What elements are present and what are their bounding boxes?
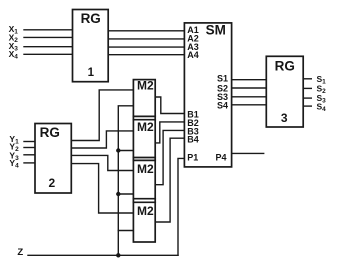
wire Z bus vertical riser — [118, 106, 133, 256]
wire Y4 (RG2 to M2-4 upper input) — [71, 164, 133, 213]
wire A3 (RG1 to SM) — [108, 46, 184, 48]
junction dot Z bus to M2-3 — [116, 192, 120, 196]
wire Z input line — [28, 254, 178, 256]
register RG1 box — [73, 10, 109, 82]
XOR M2-4 top edge — [133, 201, 155, 203]
svg-text:S4: S4 — [217, 100, 228, 110]
wire S2 output stub — [303, 87, 311, 89]
svg-text:2: 2 — [48, 176, 55, 190]
wire S1 output stub — [303, 78, 311, 80]
wire Z tap to M2-3 lower input — [118, 193, 133, 195]
wire Z tap to M2-4 lower input — [118, 230, 133, 232]
XOR M2-3 bottom edge — [133, 198, 155, 200]
wire A1 (RG1 to SM) — [108, 30, 184, 32]
wire S2 (SM to RG3) — [232, 87, 267, 89]
svg-text:M2: M2 — [137, 79, 154, 93]
svg-text:P1: P1 — [187, 152, 198, 162]
wire A2 (RG1 to SM) — [108, 38, 184, 40]
svg-text:Z: Z — [17, 247, 23, 258]
register RG2 box — [35, 124, 71, 194]
XOR column M2 outer box — [133, 80, 155, 242]
adder SM box — [184, 23, 231, 167]
wire X2 input — [24, 36, 73, 38]
XOR M2-3 top edge — [133, 159, 155, 161]
wire P4 output — [232, 152, 264, 154]
wire A4 (RG1 to SM) — [108, 54, 184, 56]
svg-text:3: 3 — [281, 111, 288, 125]
wire X1 input — [24, 29, 73, 31]
wire B4 (M2-4 output to SM) — [155, 138, 184, 222]
wire Y3 stub — [24, 154, 35, 156]
svg-text:B4: B4 — [187, 135, 199, 145]
wire Y1 stub — [24, 141, 35, 143]
XOR M2-2 top edge — [133, 119, 155, 121]
wire B3 (M2-3 output to SM) — [155, 130, 184, 184]
wire Y2 stub — [24, 147, 35, 149]
wire S4 output stub — [303, 105, 311, 107]
svg-text:RG: RG — [81, 11, 101, 26]
junction dot Z bus to M2-2 — [116, 148, 120, 152]
svg-text:P4: P4 — [216, 152, 227, 162]
wire X4 input — [24, 53, 73, 55]
wire Y2 (RG2 to M2-2 upper input) — [71, 131, 133, 148]
svg-text:1: 1 — [88, 67, 95, 79]
svg-text:RG: RG — [40, 125, 60, 140]
wire B2 (M2-2 output to SM) — [155, 122, 184, 143]
svg-text:S1: S1 — [217, 74, 228, 84]
svg-text:RG: RG — [275, 59, 295, 74]
wire S4 (SM to RG3) — [232, 104, 267, 106]
wire X3 input — [24, 46, 73, 48]
wire S1 (SM to RG3) — [232, 79, 267, 81]
svg-text:M2: M2 — [137, 120, 154, 134]
wire Z tap to M2-2 lower input — [118, 150, 133, 152]
wire Y4 stub — [24, 162, 35, 164]
wire Y3 (RG2 to M2-3 upper input) — [71, 155, 133, 170]
XOR M2-2 bottom edge — [133, 157, 155, 159]
wire S3 output stub — [303, 97, 311, 99]
junction dot Z bus at Z line — [116, 253, 120, 257]
svg-text:A4: A4 — [187, 50, 199, 60]
wire Y1 (RG2 to M2-1 upper input) — [71, 90, 133, 141]
svg-text:M2: M2 — [137, 162, 154, 176]
svg-text:SM: SM — [206, 23, 226, 38]
wire S3 (SM to RG3) — [232, 96, 267, 98]
wire P1 (Z to SM carry-in) — [178, 158, 184, 255]
wire B1 (M2-1 output to SM) — [155, 97, 184, 114]
svg-text:M2: M2 — [137, 204, 154, 218]
XOR M2-1 bottom edge — [133, 115, 155, 117]
register RG3 box — [266, 56, 303, 127]
